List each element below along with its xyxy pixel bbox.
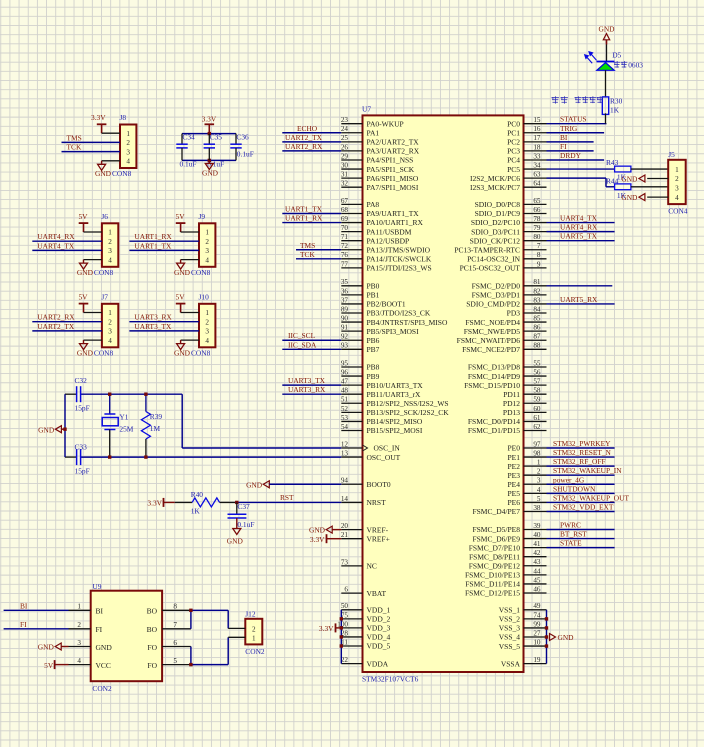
U7 pin 53 (PB14/SPI2_MISO) [341, 414, 423, 426]
svg-text:UART5_TX: UART5_TX [560, 232, 598, 241]
svg-text:VSS_5: VSS_5 [499, 642, 521, 651]
ground at J9 [174, 260, 199, 277]
svg-text:87: 87 [533, 333, 541, 341]
svg-text:74: 74 [533, 611, 541, 619]
svg-text:BOOT0: BOOT0 [367, 480, 391, 489]
wire net UART2_TX [282, 141, 341, 143]
junction bottom bus C35 [208, 159, 211, 162]
U7 pin 54 (PB15/SPI2_MOSI) [341, 423, 423, 435]
svg-text:VDD_3: VDD_3 [367, 624, 391, 633]
svg-text:FSMC_D9/PE12: FSMC_D9/PE12 [469, 561, 521, 570]
ground at J8 [95, 161, 120, 178]
U7 pin 3 (PE4) [507, 477, 546, 489]
svg-text:J6: J6 [101, 212, 108, 221]
wire net UART5_RX [547, 303, 615, 305]
svg-text:PB5/SPI3_MOSI: PB5/SPI3_MOSI [367, 327, 420, 336]
svg-text:76: 76 [341, 251, 349, 259]
U7 pin 16 (PC1) [507, 125, 546, 137]
svg-text:UART5_RX: UART5_RX [560, 295, 598, 304]
svg-text:STM32_RESET_N: STM32_RESET_N [553, 448, 612, 457]
U7 pin 52 (PB13/SPI2_SCK/I2S2_CK) [341, 405, 449, 417]
power port 3.3V at C35 [202, 114, 217, 133]
svg-text:0.1uF: 0.1uF [180, 159, 197, 168]
svg-text:FSMC_D13/PD8: FSMC_D13/PD8 [468, 363, 520, 372]
svg-text:VREF+: VREF+ [367, 534, 390, 543]
U7 pin 57 (FSMC_D15/PD10) [464, 378, 546, 390]
svg-text:59: 59 [533, 396, 541, 404]
power port 5V at J10 [176, 293, 199, 313]
U7 pin 88 (FSMC_NCE2/PD7) [462, 342, 546, 354]
U7 pin 21 (VREF+) [341, 531, 390, 543]
svg-text:GND: GND [174, 268, 191, 277]
U7 pin 86 (FSMC_NWE/PD5) [464, 324, 547, 336]
U7 pin 73 (NC) [341, 558, 377, 570]
U7 pin 42 (FSMC_D8/PE11) [469, 549, 547, 561]
svg-text:46: 46 [533, 585, 541, 593]
svg-text:FI: FI [560, 142, 567, 151]
svg-text:PA5/SPI1_SCK: PA5/SPI1_SCK [367, 165, 415, 174]
svg-text:79: 79 [533, 224, 541, 232]
svg-text:PA11/USBDM: PA11/USBDM [367, 227, 412, 236]
junction VSS_4 [545, 635, 548, 638]
U7 pin 65 (SDIO_D0/PC8) [475, 197, 547, 209]
wire PD0 stub net [547, 285, 613, 287]
svg-text:27: 27 [533, 629, 541, 637]
svg-text:GND: GND [621, 175, 638, 184]
svg-text:CON4: CON4 [668, 206, 688, 215]
U7 pin 85 (FSMC_NOE/PD4) [465, 314, 546, 326]
svg-text:29: 29 [341, 152, 349, 160]
U7 pin 95 (PB8) [341, 359, 380, 371]
U7 pin 96 (PB9) [341, 368, 380, 380]
junction Y1 bottom [108, 455, 111, 458]
U7 pin 34 (PC5) [507, 161, 546, 173]
svg-text:1: 1 [205, 309, 209, 317]
U7 pin 63 (I2S2_MCK/PC6) [470, 171, 547, 183]
svg-text:power_4G: power_4G [553, 475, 585, 484]
U7 pin 80 (SDIO_CK/PC12) [470, 233, 547, 245]
ground at J10 [174, 340, 199, 357]
svg-text:STATE: STATE [560, 539, 582, 548]
svg-text:51: 51 [341, 396, 349, 404]
U7 pin 46 (FSMC_D12/PE15) [465, 585, 547, 597]
U7 pin 32 (PA7/SPI1_MOSI) [341, 180, 419, 192]
svg-text:69: 69 [341, 215, 349, 223]
svg-text:PB4/JNTRST/SPI3_MISO: PB4/JNTRST/SPI3_MISO [367, 318, 448, 327]
svg-text:15: 15 [533, 116, 541, 124]
svg-text:GND: GND [95, 169, 112, 178]
svg-text:4: 4 [108, 337, 112, 345]
junction Y1 top [108, 393, 111, 396]
svg-text:PE1: PE1 [507, 453, 520, 462]
svg-text:90: 90 [341, 314, 349, 322]
svg-text:R39: R39 [150, 412, 163, 421]
svg-text:73: 73 [341, 558, 349, 566]
svg-text:PE4: PE4 [507, 480, 520, 489]
U7 pin 92 (PB6) [341, 333, 380, 345]
svg-text:92: 92 [341, 333, 349, 341]
svg-text:70: 70 [341, 224, 349, 232]
svg-text:35: 35 [341, 278, 349, 286]
svg-text:1K: 1K [191, 507, 201, 516]
svg-text:C34: C34 [182, 133, 195, 142]
svg-text:64: 64 [533, 180, 541, 188]
svg-text:PB11/UART3_rX: PB11/UART3_rX [367, 390, 421, 399]
wire OSC_OUT rail [65, 456, 77, 458]
svg-text:J5: J5 [668, 150, 675, 159]
U9 pin 7 [162, 628, 191, 630]
svg-text:NC: NC [367, 562, 377, 571]
wire net STATUS [547, 123, 607, 125]
svg-text:PA12/USBDP: PA12/USBDP [367, 236, 410, 245]
wire net FI [4, 628, 69, 630]
wire net IIC_SDA [282, 348, 341, 350]
svg-text:2: 2 [252, 626, 256, 634]
svg-text:PC2: PC2 [507, 138, 520, 147]
U7 pin 6 (VBAT) [341, 586, 386, 598]
svg-text:STM32_VDD_EXT: STM32_VDD_EXT [553, 502, 614, 511]
U7 pin 93 (PB7) [341, 342, 380, 354]
wire net STATE [547, 547, 615, 549]
U7 pin 50 (VDD_1) [341, 602, 391, 614]
label status indicator chinese [552, 96, 559, 103]
svg-text:PC14-OSC32_IN: PC14-OSC32_IN [467, 255, 521, 264]
svg-text:UART2_RX: UART2_RX [285, 142, 323, 151]
wire R43 to J5 pin1 [631, 168, 668, 170]
U7 pin 1 (PE2) [507, 459, 546, 471]
svg-text:STATUS: STATUS [560, 115, 587, 124]
U7 pin 40 (FSMC_D6/PE9) [472, 531, 546, 543]
power port 3.3V at R40 [147, 498, 192, 508]
svg-text:1K: 1K [610, 106, 620, 115]
junction R39 bottom [144, 455, 147, 458]
svg-text:5V: 5V [176, 293, 186, 302]
svg-text:14: 14 [341, 495, 349, 503]
ground at LED D5 [599, 25, 616, 45]
wire net BT_RST [547, 538, 615, 540]
svg-text:J12: J12 [245, 609, 256, 618]
svg-text:PA8: PA8 [367, 200, 380, 209]
svg-text:71: 71 [341, 233, 349, 241]
svg-text:R30: R30 [610, 96, 623, 105]
svg-text:44: 44 [533, 567, 541, 575]
svg-text:PB13/SPI2_SCK/I2S2_CK: PB13/SPI2_SCK/I2S2_CK [367, 408, 450, 417]
svg-text:23: 23 [341, 116, 349, 124]
svg-text:C32: C32 [75, 376, 88, 385]
svg-text:PA7/SPI1_MOSI: PA7/SPI1_MOSI [367, 183, 419, 192]
power port 5V at J6 [78, 212, 101, 232]
svg-text:ECHO: ECHO [297, 124, 318, 133]
svg-text:1: 1 [537, 459, 541, 467]
svg-text:3: 3 [108, 328, 112, 336]
wire net UART1_RX at J9 [129, 240, 199, 242]
svg-text:65: 65 [533, 197, 541, 205]
wire net UART1_RX [282, 222, 341, 224]
svg-text:91: 91 [341, 324, 349, 332]
wire net TCK [296, 258, 341, 260]
ground at VSS bus [550, 633, 575, 642]
svg-text:VSS_3: VSS_3 [499, 624, 521, 633]
svg-text:VDD_1: VDD_1 [367, 606, 391, 615]
svg-text:FSMC_D0/PD14: FSMC_D0/PD14 [468, 417, 520, 426]
svg-text:1: 1 [77, 603, 81, 611]
svg-text:45: 45 [533, 576, 541, 584]
svg-text:SDIO_D3/PC11: SDIO_D3/PC11 [471, 227, 520, 236]
connector J12 [245, 609, 265, 655]
wire net UART2_RX [282, 150, 341, 152]
wire net PWRC [547, 529, 615, 531]
svg-text:PE3: PE3 [507, 471, 520, 480]
svg-text:VBAT: VBAT [367, 589, 387, 598]
junction VDD_4 [340, 635, 343, 638]
svg-text:PD3: PD3 [507, 309, 521, 318]
svg-text:C36: C36 [236, 133, 249, 142]
U7 pin 31 (PA6/SPI1_MISO) [341, 171, 419, 183]
svg-text:GND: GND [599, 25, 616, 34]
svg-text:10: 10 [533, 638, 541, 646]
svg-text:57: 57 [533, 378, 541, 386]
svg-text:60: 60 [533, 405, 541, 413]
ground at C35 [202, 160, 219, 177]
connector J5 [668, 150, 688, 215]
ground at J5 pin2 [621, 175, 645, 184]
wire net UART2_TX at J7 [32, 330, 102, 332]
svg-text:FSMC_D15/PD10: FSMC_D15/PD10 [464, 381, 520, 390]
svg-text:SHUTDOWN: SHUTDOWN [553, 484, 596, 493]
svg-text:PD11: PD11 [503, 390, 520, 399]
svg-text:12: 12 [341, 440, 349, 448]
svg-text:UART1_TX: UART1_TX [134, 241, 172, 250]
resistor R39 [141, 394, 162, 457]
U7 pin 27 (VSS_4) [499, 629, 547, 641]
svg-text:3: 3 [205, 247, 209, 255]
svg-text:0603: 0603 [628, 61, 643, 70]
svg-text:GND: GND [309, 526, 326, 535]
svg-text:5V: 5V [44, 661, 54, 670]
svg-text:13: 13 [341, 449, 349, 457]
svg-text:PB1: PB1 [367, 291, 380, 300]
svg-text:FSMC_D3/PD1: FSMC_D3/PD1 [472, 291, 521, 300]
svg-text:3.3V: 3.3V [310, 535, 325, 544]
U7 pin 60 (PD13) [503, 405, 547, 417]
svg-text:15pF: 15pF [75, 467, 90, 476]
U7 pin 87 (FSMC_NWAIT/PD6) [457, 333, 547, 345]
wire net RST [237, 501, 341, 503]
svg-text:UART4_RX: UART4_RX [560, 223, 598, 232]
svg-text:55: 55 [533, 359, 541, 367]
svg-text:86: 86 [533, 324, 541, 332]
U7 pin 39 (FSMC_D5/PE8) [472, 522, 546, 534]
svg-text:CON8: CON8 [94, 348, 114, 357]
svg-text:SDIO_D2/PC10: SDIO_D2/PC10 [471, 218, 520, 227]
svg-text:PC4: PC4 [507, 156, 520, 165]
U7 pin 64 (I2S3_MCK/PC7) [470, 180, 547, 192]
U7 pin 7 (PC13-TAMPER-RTC) [454, 242, 546, 254]
svg-text:83: 83 [533, 296, 541, 304]
svg-text:FSMC_NWAIT/PD6: FSMC_NWAIT/PD6 [457, 336, 521, 345]
wire net UART2_RX at J7 [32, 321, 102, 323]
svg-text:20: 20 [341, 522, 349, 530]
U7 pin 98 (PE1) [507, 449, 546, 461]
U7 pin 51 (PB12/SPI2_NSS/I2S2_WS) [341, 396, 449, 408]
svg-text:1: 1 [108, 309, 112, 317]
U7 pin 47 (PB10/UART3_TX) [341, 378, 423, 390]
resistor R40 [191, 490, 237, 516]
U7 pin 82 (FSMC_D3/PD1) [472, 287, 547, 299]
svg-text:89: 89 [341, 305, 349, 313]
svg-text:FSMC_D6/PE9: FSMC_D6/PE9 [472, 534, 520, 543]
resistor R30 [602, 96, 622, 114]
svg-text:BI: BI [96, 607, 104, 616]
svg-text:PA0-WKUP: PA0-WKUP [367, 119, 404, 128]
svg-text:38: 38 [533, 504, 541, 512]
U7 pin 48 (PB11/UART3_rX) [341, 387, 421, 399]
svg-text:4: 4 [537, 486, 541, 494]
svg-text:2: 2 [205, 238, 209, 246]
svg-text:PA15/JTDI/I2S3_WS: PA15/JTDI/I2S3_WS [367, 264, 432, 273]
U9 pin 3 [69, 646, 91, 648]
svg-text:FSMC_D2/PD0: FSMC_D2/PD0 [472, 282, 521, 291]
svg-text:5: 5 [173, 657, 177, 665]
U7 pin 18 (PC3) [507, 143, 546, 155]
svg-text:UART4_TX: UART4_TX [560, 214, 598, 223]
svg-text:GND: GND [77, 348, 94, 357]
U7 pin 55 (FSMC_D13/PD8) [468, 359, 547, 371]
svg-text:41: 41 [533, 540, 541, 548]
svg-text:PA9/UART1_TX: PA9/UART1_TX [367, 209, 420, 218]
svg-text:54: 54 [341, 423, 349, 431]
svg-text:OSC_OUT: OSC_OUT [367, 453, 401, 462]
svg-text:IIC_SDA: IIC_SDA [288, 340, 317, 349]
svg-text:TMS: TMS [67, 133, 82, 142]
svg-text:BI: BI [20, 601, 28, 610]
svg-text:2: 2 [537, 468, 541, 476]
U7 pin 90 (PB4/JNTRST/SPI3_MISO) [341, 314, 448, 326]
U7 pin 15 (PC0) [507, 116, 546, 128]
svg-text:2: 2 [126, 139, 130, 147]
junction RST node [235, 501, 238, 504]
junction VSS_3 [545, 626, 548, 629]
wire net STM32_RF_OFF [547, 465, 615, 467]
U7 pin 61 (FSMC_D0/PD14) [468, 414, 547, 426]
junction VSS_5 [545, 644, 548, 647]
junction crystal ground [63, 428, 66, 431]
capacitor C36 [230, 133, 254, 161]
svg-text:78: 78 [533, 215, 541, 223]
junction FO [189, 663, 192, 666]
svg-text:5V: 5V [78, 293, 88, 302]
power port 5V at U9 pin4 [44, 660, 68, 670]
svg-text:BO: BO [147, 607, 158, 616]
wire net UART3_RX at J10 [129, 321, 199, 323]
svg-text:PC13-TAMPER-RTC: PC13-TAMPER-RTC [454, 245, 520, 254]
svg-text:UART2_TX: UART2_TX [285, 133, 323, 142]
U7 pin 66 (SDIO_D1/PC9) [475, 206, 547, 218]
svg-text:GND: GND [38, 643, 55, 652]
svg-text:CON8: CON8 [191, 268, 211, 277]
connector J9 [191, 212, 215, 277]
U7 pin 25 (PA2/UART2_TX) [341, 134, 419, 146]
wire net IIC_SCL [282, 339, 341, 341]
svg-text:2: 2 [108, 318, 112, 326]
wire decoupling top bus [182, 133, 236, 135]
svg-text:2: 2 [77, 621, 81, 629]
svg-text:63: 63 [533, 171, 541, 179]
wire net power_4G [547, 483, 615, 485]
svg-text:PC1: PC1 [507, 128, 520, 137]
svg-text:5V: 5V [78, 212, 88, 221]
svg-text:36: 36 [341, 287, 349, 295]
svg-text:PA10/UART1_RX: PA10/UART1_RX [367, 218, 424, 227]
capacitor C33 [75, 443, 90, 476]
svg-text:PD13: PD13 [503, 408, 520, 417]
svg-text:IIC_SCL: IIC_SCL [288, 331, 316, 340]
U7 pin 23 (PA0-WKUP) [341, 116, 404, 128]
wire net UART1_TX [282, 212, 341, 214]
svg-text:VDDA: VDDA [367, 659, 389, 668]
svg-text:33: 33 [533, 152, 541, 160]
svg-text:CON8: CON8 [191, 348, 211, 357]
svg-text:R40: R40 [191, 490, 204, 499]
svg-text:18: 18 [533, 143, 541, 151]
svg-text:RST: RST [280, 493, 294, 502]
svg-text:SDIO_CK/PC12: SDIO_CK/PC12 [470, 236, 521, 245]
U7 pin 5 (PE6) [507, 495, 546, 507]
svg-text:93: 93 [341, 342, 349, 350]
ground at J7 [77, 340, 102, 357]
svg-text:42: 42 [533, 549, 541, 557]
junction R39 top [144, 393, 147, 396]
svg-text:UART3_TX: UART3_TX [288, 376, 326, 385]
svg-text:CON2: CON2 [92, 684, 112, 693]
svg-text:3: 3 [77, 639, 81, 647]
svg-text:2: 2 [675, 175, 679, 183]
svg-text:24: 24 [341, 125, 349, 133]
svg-text:2: 2 [108, 238, 112, 246]
svg-text:49: 49 [533, 602, 541, 610]
U7 pin 71 (PA12/USBDP) [341, 233, 409, 245]
resistor R43 [606, 158, 631, 181]
svg-text:6: 6 [344, 586, 348, 594]
wire decoupling bottom bus [182, 159, 236, 161]
svg-text:VDD_5: VDD_5 [367, 642, 391, 651]
svg-text:58: 58 [533, 387, 541, 395]
wire net UART5_TX [547, 240, 615, 242]
power port 3.3V at VDD pins [319, 623, 341, 633]
svg-text:PB15/SPI2_MOSI: PB15/SPI2_MOSI [367, 426, 423, 435]
svg-text:1M: 1M [150, 424, 161, 433]
wire net STM32_RESET_N [547, 456, 615, 458]
U7 pin 4 (PE5) [507, 486, 546, 498]
svg-text:3: 3 [205, 328, 209, 336]
svg-text:UART3_TX: UART3_TX [134, 322, 172, 331]
wire OSC_IN rail [65, 393, 77, 395]
svg-text:C33: C33 [75, 443, 88, 452]
wire J5 pin2 stub [647, 178, 668, 180]
capacitor C37 [228, 502, 255, 529]
svg-text:J10: J10 [199, 293, 210, 302]
wire net TCK at J8 [62, 151, 121, 153]
U7 pin 17 (PC2) [507, 134, 546, 146]
U7 pin 10 (VSS_5) [499, 638, 547, 650]
svg-text:97: 97 [533, 440, 541, 448]
svg-text:68: 68 [341, 206, 349, 214]
svg-text:PA14/JTCK/SWCLK: PA14/JTCK/SWCLK [367, 255, 432, 264]
U7 pin 77 (PA15/JTDI/I2S3_WS) [341, 260, 432, 272]
svg-text:98: 98 [533, 449, 541, 457]
svg-text:FO: FO [147, 643, 157, 652]
svg-text:1: 1 [126, 130, 130, 138]
